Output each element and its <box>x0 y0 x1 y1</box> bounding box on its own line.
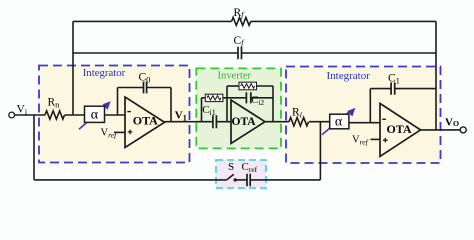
wire Rf feedback line right <box>251 20 437 22</box>
op-amp OTA2 inverter <box>231 100 265 144</box>
integrator block frame (right, dashed blue, cream fill) <box>286 67 441 164</box>
pin plus OTA3 <box>383 138 388 143</box>
boxed resistor inverter input <box>205 94 223 101</box>
wire OTA3 output <box>421 129 461 131</box>
arrow through alpha block 2 <box>322 108 355 135</box>
op-amp OTA1 <box>125 97 165 148</box>
wire alpha2 to OTA3 <box>350 122 381 124</box>
wire input from Vi <box>14 114 45 116</box>
svg-text:α: α <box>91 107 99 122</box>
wire inverter top line right <box>257 85 274 87</box>
svg-text:Integrator: Integrator <box>327 70 371 82</box>
capacitor Cref <box>247 174 250 186</box>
reference switch block frame (dashed cyan, lavender fill) <box>216 160 266 188</box>
svg-text:OTA: OTA <box>386 122 411 136</box>
wire C0 left riser <box>117 88 119 116</box>
pin plus OTA1 <box>128 130 133 135</box>
wire Ci2 to output riser <box>251 97 273 99</box>
wire C1 line right <box>395 88 436 90</box>
wire C0 right riser <box>170 88 172 122</box>
svg-text:α: α <box>335 115 343 130</box>
inverter block frame (dashed green, pale green fill) <box>196 68 281 148</box>
svg-text:Inverter: Inverter <box>218 71 252 82</box>
wire C1 left riser <box>369 89 371 123</box>
wire inverter node riser <box>226 86 228 122</box>
wire Rf feedback line left <box>73 20 232 22</box>
wire C0 line left <box>118 87 144 89</box>
capacitor C1 <box>391 82 395 94</box>
wire OTA2 output to Ri <box>265 121 289 123</box>
capacitor Ci2 <box>246 92 250 103</box>
wire Vref1 to OTA1 plus <box>114 131 125 133</box>
svg-text:VO: VO <box>445 117 459 129</box>
wire inverter input branch to boxed resistor <box>202 97 206 99</box>
wire alpha1 to OTA1 <box>105 114 126 116</box>
wire Ri to alpha2 <box>309 121 329 123</box>
wire OTA1 output to Ci1 <box>165 121 213 123</box>
arrow through alpha block 1 <box>79 101 111 129</box>
capacitor C0 <box>144 82 147 94</box>
wire C ref to riser <box>251 179 320 181</box>
node Vi input terminal <box>9 112 15 118</box>
node Vo output terminal <box>460 127 466 133</box>
pin minus OTA1 <box>127 111 131 113</box>
capacitor Cf <box>238 47 242 59</box>
wire left feedback rail <box>72 21 74 115</box>
svg-text:Integrator: Integrator <box>83 67 126 79</box>
resistor Rn <box>45 111 65 119</box>
wire inverter top line left <box>227 85 239 87</box>
wire Rn to alpha <box>65 114 85 116</box>
resistor Ri <box>289 118 309 126</box>
pin minus OTA3 <box>382 118 386 120</box>
wire bottom loop right riser <box>319 122 321 180</box>
svg-text:S: S <box>228 161 234 173</box>
capacitor Ci1 <box>213 115 217 128</box>
wire Cf feedback line right <box>242 52 436 54</box>
wire bottom loop to switch <box>34 179 227 181</box>
boxed resistor inverter feedback <box>239 82 257 90</box>
wire inverter output riser <box>272 86 274 122</box>
integrator block frame (left, dashed blue, cream fill) <box>39 66 190 163</box>
switch S <box>227 174 247 180</box>
wire boxed resistor1 to Ci2 <box>223 97 246 99</box>
wire right feedback rail <box>435 21 437 129</box>
wire input branch riser to bottom loop <box>33 115 35 180</box>
wire Ci1 to OTA2 <box>216 121 231 123</box>
attenuator alpha 2 <box>330 114 349 129</box>
resistor Rf <box>232 17 251 25</box>
wire Vref2 to OTA3 plus <box>371 138 381 140</box>
node switch contact dot <box>234 178 237 181</box>
wire C0 line right <box>147 87 171 89</box>
svg-text:Cf: Cf <box>234 35 246 47</box>
svg-text:Rf: Rf <box>234 7 246 19</box>
wire inverter input branch riser <box>201 98 203 122</box>
svg-text:OTA: OTA <box>232 116 257 128</box>
svg-text:OTA: OTA <box>133 114 158 128</box>
wire C1 line left <box>370 88 391 90</box>
wire Cf feedback line left <box>73 52 238 54</box>
op-amp OTA3 <box>380 103 421 156</box>
attenuator alpha 1 <box>85 106 105 122</box>
